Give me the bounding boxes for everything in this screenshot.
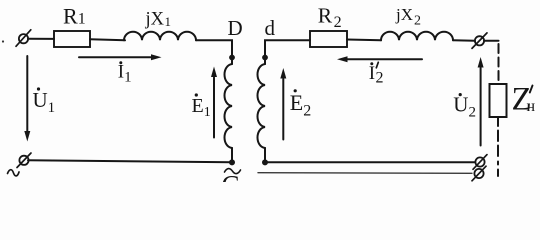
terminal bottom-left — [17, 153, 31, 168]
svg-text:E2: E2 — [290, 90, 311, 119]
primary winding left coil — [225, 64, 233, 148]
svg-text:D: D — [228, 16, 243, 40]
wire jX2 to terminal — [453, 39, 475, 42]
terminal top-left — [16, 30, 31, 47]
bottom wire right — [265, 161, 475, 163]
svg-text:I1: I1 — [118, 61, 132, 85]
wire node d corner — [265, 40, 310, 64]
inductor jX2 — [381, 32, 453, 41]
arrow I'2 current — [337, 56, 422, 62]
wire terminal to dashed corner — [484, 40, 499, 42]
secondary winding right coil — [258, 64, 266, 148]
wire terminal to R1 — [28, 38, 54, 40]
dashed wire below load — [497, 117, 499, 126]
terminal bottom-right — [473, 155, 487, 170]
svg-text:jX1: jX1 — [145, 9, 172, 29]
svg-text:U1: U1 — [33, 88, 56, 116]
svg-text:d: d — [265, 16, 276, 40]
dashed wire to bottom — [497, 131, 499, 177]
wire jX1 to node D corner — [196, 40, 232, 64]
tilde over C label — [225, 169, 241, 174]
label E2 with dot — [290, 89, 311, 119]
svg-text:I: I — [369, 63, 375, 84]
arrow I1 current — [79, 54, 162, 60]
label U2 with dot — [453, 93, 476, 121]
svg-text:E1: E1 — [192, 95, 211, 120]
svg-text:2: 2 — [376, 69, 384, 86]
wire left coil bottom — [231, 148, 233, 162]
resistor R2 — [310, 31, 347, 47]
wire R1 to jX1 — [90, 39, 125, 40]
junction dot at d — [262, 55, 268, 61]
terminal top-right — [472, 33, 487, 49]
label E1 with dot — [192, 93, 211, 120]
junction dot at D — [229, 55, 235, 61]
svg-text:jX2: jX2 — [395, 5, 421, 29]
junction dot bottom right coil — [262, 159, 268, 165]
bottom wire left — [28, 160, 232, 162]
wire R2 to jX2 — [347, 39, 381, 42]
junction dot bottom left coil — [229, 159, 235, 165]
label I'2 with dot and prime — [369, 62, 384, 86]
svg-text:R1: R1 — [63, 4, 86, 29]
arrow E2 emf — [280, 68, 286, 140]
load Z'n box — [490, 84, 507, 117]
svg-text:н: н — [527, 98, 536, 115]
svg-text:R2: R2 — [318, 4, 342, 31]
inductor jX1 — [124, 32, 196, 41]
second terminal bottom-right (cut) — [472, 166, 486, 181]
second lower wire (cut figure below) — [258, 172, 472, 175]
label I1 with dot — [118, 61, 132, 85]
resistor R1 — [54, 31, 90, 47]
dashed wire down to load — [498, 44, 500, 84]
label Z'n load — [512, 82, 536, 118]
ink speck left edge — [2, 40, 4, 42]
arrow U1 voltage — [24, 56, 30, 142]
svg-text:U2: U2 — [453, 93, 476, 121]
svg-text:C: C — [222, 170, 240, 182]
arrow E1 emf — [211, 67, 217, 138]
label U1 with dot — [33, 87, 56, 116]
arrow U2 voltage — [478, 57, 484, 146]
tilde AC mark bottom-left — [8, 170, 20, 176]
wire right coil bottom — [264, 148, 266, 162]
